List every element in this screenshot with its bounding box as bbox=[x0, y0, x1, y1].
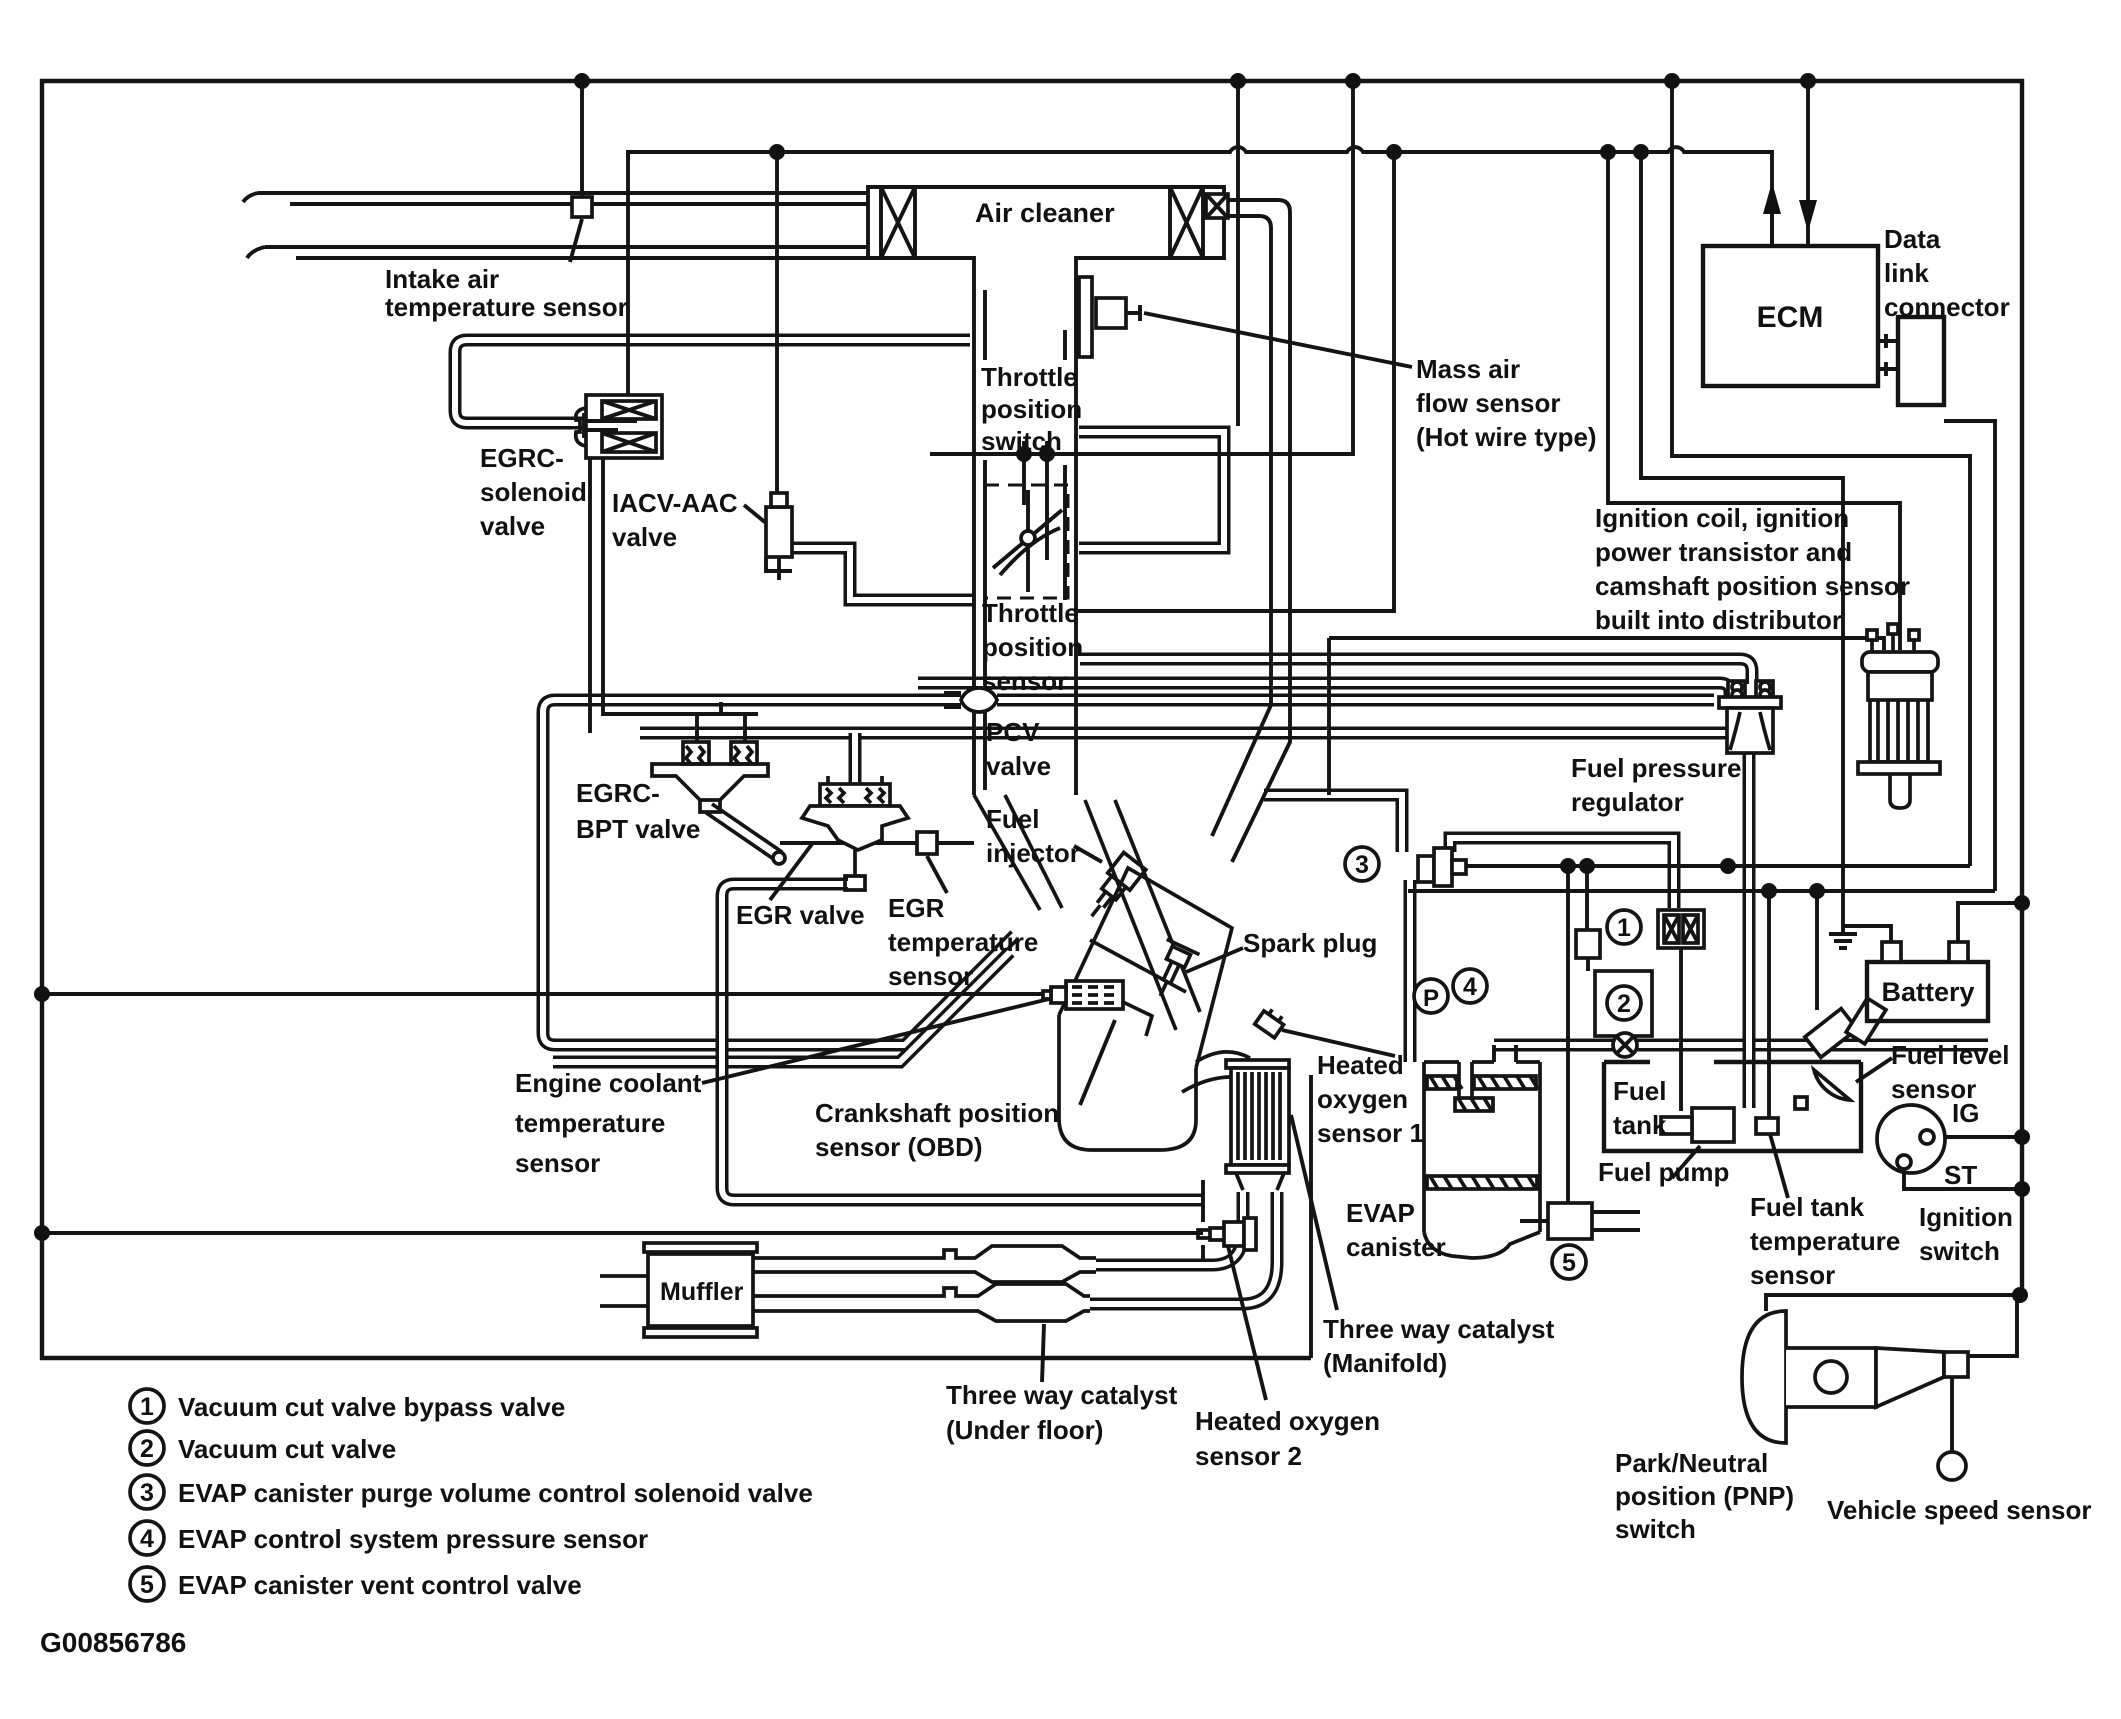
svg-text:position: position bbox=[982, 632, 1083, 662]
throttle position sensor bbox=[985, 485, 1068, 598]
air cleaner right X-box bbox=[1170, 187, 1203, 258]
muffler bbox=[600, 1243, 757, 1337]
svg-text:switch: switch bbox=[1615, 1514, 1696, 1544]
junction dot y866 x1728 bbox=[1720, 858, 1736, 874]
EGR temperature sensor bbox=[917, 832, 937, 854]
air cleaner outlet line B to manifold bbox=[1212, 216, 1271, 836]
coolant U-pipe right of throttle bbox=[1079, 432, 1224, 548]
legend circled 2 bbox=[130, 1431, 164, 1465]
downpipe upper curve bbox=[1096, 1192, 1243, 1265]
leader three way catalyst underfloor bbox=[1042, 1324, 1044, 1382]
pipe to regulator left post bbox=[918, 683, 1730, 697]
spark plug bbox=[1144, 939, 1199, 1003]
svg-text:EVAP canister vent control val: EVAP canister vent control valve bbox=[178, 1570, 582, 1600]
svg-text:Vacuum cut valve bypass valve: Vacuum cut valve bypass valve bbox=[178, 1392, 565, 1422]
svg-text:link: link bbox=[1884, 258, 1929, 288]
wire bus2 to throttle position sensor bbox=[1078, 152, 1394, 611]
intake air temperature sensor bbox=[572, 197, 592, 217]
ECM up arrow bbox=[1770, 192, 1774, 246]
leader crankshaft position sensor bbox=[1080, 1020, 1115, 1105]
svg-text:tank: tank bbox=[1613, 1110, 1667, 1140]
svg-text:Muffler: Muffler bbox=[660, 1278, 744, 1306]
svg-text:IG: IG bbox=[1952, 1098, 1979, 1128]
intake duct lower pipe bbox=[247, 247, 868, 258]
pipe regulator return into fuel tank bbox=[1743, 753, 1756, 1108]
downpipe left wall bbox=[1201, 1180, 1205, 1260]
fuel pressure regulator bbox=[1719, 681, 1781, 753]
EGRC valve lower wire A bbox=[588, 458, 592, 733]
svg-text:valve: valve bbox=[612, 522, 677, 552]
svg-text:canister: canister bbox=[1346, 1232, 1446, 1262]
PNP wire right bbox=[1967, 1295, 2017, 1356]
svg-text:5: 5 bbox=[1562, 1249, 1576, 1277]
svg-text:3: 3 bbox=[1355, 851, 1369, 879]
svg-text:EGR: EGR bbox=[888, 893, 945, 923]
vacuum cut bypass plunger bbox=[1576, 930, 1600, 958]
leader engine coolant temp sensor bbox=[702, 998, 1053, 1083]
circled 3 bbox=[1345, 847, 1379, 881]
heated oxygen sensor 1 bbox=[1255, 1006, 1287, 1038]
pipe air cleaner to EGRC solenoid valve bbox=[455, 340, 970, 423]
pipe PCV to regulator body bbox=[997, 694, 1714, 707]
svg-text:Vehicle speed sensor: Vehicle speed sensor bbox=[1827, 1495, 2091, 1525]
junction dot bus2 x777 bbox=[769, 144, 785, 160]
wire bus2 to IACV-AAC valve bbox=[775, 152, 779, 507]
engine block bbox=[974, 795, 1262, 1150]
junction dot bus2 x1608 bbox=[1600, 144, 1616, 160]
EGR valve bbox=[802, 776, 908, 890]
svg-text:EGRC-: EGRC- bbox=[576, 778, 660, 808]
svg-text:(Hot wire type): (Hot wire type) bbox=[1416, 422, 1597, 452]
junction dot border ST bbox=[2014, 1181, 2030, 1197]
IACV-AAC valve bbox=[766, 507, 792, 557]
PCV valve bbox=[961, 688, 997, 712]
svg-text:camshaft position sensor: camshaft position sensor bbox=[1595, 571, 1910, 601]
leader fuel injector bbox=[1074, 846, 1102, 862]
fuel tank box bbox=[1604, 1062, 1861, 1151]
pipe PCV line down and under engine bbox=[543, 700, 1015, 1045]
EGRC-solenoid valve bbox=[586, 395, 662, 458]
ST wire bbox=[1904, 1169, 2022, 1189]
svg-text:sensor: sensor bbox=[1750, 1260, 1835, 1290]
svg-text:Air cleaner: Air cleaner bbox=[975, 198, 1115, 228]
junction dot TPS B bbox=[1039, 446, 1055, 462]
svg-text:Fuel tank: Fuel tank bbox=[1750, 1192, 1865, 1222]
svg-text:temperature: temperature bbox=[1750, 1226, 1900, 1256]
svg-text:Heated: Heated bbox=[1317, 1050, 1404, 1080]
leader heated oxygen sensor 2 bbox=[1228, 1246, 1266, 1400]
svg-text:EGR valve: EGR valve bbox=[736, 900, 865, 930]
svg-text:(Manifold): (Manifold) bbox=[1323, 1348, 1447, 1378]
wire purge branch from distributor wire bbox=[1327, 638, 1331, 795]
svg-text:ST: ST bbox=[1944, 1160, 1977, 1190]
svg-text:Heated oxygen: Heated oxygen bbox=[1195, 1406, 1380, 1436]
svg-text:Fuel pump: Fuel pump bbox=[1598, 1157, 1729, 1187]
svg-text:Fuel: Fuel bbox=[1613, 1076, 1666, 1106]
ECM box bbox=[1703, 246, 1878, 386]
pipe EGR top to fuel pressure regulator bbox=[640, 727, 1727, 740]
leader intake air temp sensor bbox=[570, 219, 582, 262]
throttle switch contact wires bbox=[1024, 454, 1047, 560]
sensor line y891 bbox=[1408, 889, 1995, 893]
data link connector bbox=[1898, 317, 1944, 405]
svg-text:PCV: PCV bbox=[986, 717, 1040, 747]
pipe canister to fuel level assembly bbox=[1494, 1039, 1988, 1052]
leader spark plug bbox=[1186, 948, 1243, 972]
leader three way catalyst manifold bbox=[1291, 1115, 1337, 1310]
IG wire bbox=[1934, 1135, 2022, 1139]
svg-text:temperature: temperature bbox=[515, 1108, 665, 1138]
leader heated oxygen sensor 1 bbox=[1282, 1030, 1395, 1056]
wire to fuel tank temp sensor bbox=[1767, 891, 1771, 1118]
svg-text:sensor: sensor bbox=[888, 961, 973, 991]
legend circled 1 bbox=[130, 1389, 164, 1423]
svg-text:position: position bbox=[981, 394, 1082, 424]
leader fuel tank temp sensor bbox=[1770, 1134, 1788, 1198]
svg-text:1: 1 bbox=[1617, 914, 1631, 942]
fuel tank temperature sensor bbox=[1756, 1118, 1778, 1134]
battery positive wire bbox=[1958, 903, 2022, 942]
stub circleX bbox=[1623, 1033, 1627, 1036]
svg-text:5: 5 bbox=[140, 1571, 154, 1599]
svg-text:sensor: sensor bbox=[982, 666, 1067, 696]
svg-text:EVAP: EVAP bbox=[1346, 1198, 1415, 1228]
EVAP canister purge volume control solenoid valve bbox=[1418, 848, 1466, 886]
wire bus2 to EGRC-solenoid valve bbox=[626, 152, 630, 395]
leader EGR valve bbox=[770, 844, 812, 900]
junction dot top bus x582 bbox=[574, 73, 590, 89]
sensor bus line y994 bbox=[42, 992, 1043, 996]
svg-text:temperature sensor: temperature sensor bbox=[385, 292, 628, 322]
junction dot bus2 x1394 bbox=[1386, 144, 1402, 160]
svg-text:Spark plug: Spark plug bbox=[1243, 928, 1377, 958]
svg-text:Three way catalyst: Three way catalyst bbox=[1323, 1314, 1555, 1344]
wire top bus to intake air temp sensor bbox=[580, 81, 584, 197]
svg-text:sensor (OBD): sensor (OBD) bbox=[815, 1132, 983, 1162]
circled 5 bbox=[1552, 1245, 1586, 1279]
junction dot TPS A bbox=[1016, 446, 1032, 462]
vacuum cut valve bypass valve coils bbox=[1658, 910, 1704, 948]
junction dot y891 x1769 bbox=[1761, 883, 1777, 899]
distributor bbox=[1858, 624, 1940, 808]
EVAP canister vent control valve bbox=[1548, 1203, 1592, 1239]
leader fuel level sensor bbox=[1856, 1058, 1892, 1082]
EGRC valve lower wire B to EGRC-BPT valve bbox=[603, 458, 758, 742]
svg-text:ECM: ECM bbox=[1757, 301, 1824, 334]
legend circled 5 bbox=[130, 1567, 164, 1601]
EVAP pressure sensor P bbox=[1414, 979, 1448, 1013]
svg-text:temperature: temperature bbox=[888, 927, 1038, 957]
svg-text:injector: injector bbox=[986, 838, 1080, 868]
wire top bus to throttle position switch bbox=[930, 81, 1353, 454]
svg-text:EVAP control system pressure s: EVAP control system pressure sensor bbox=[178, 1524, 648, 1554]
junction dot left border y994 bbox=[34, 986, 50, 1002]
circled 2 bbox=[1607, 986, 1641, 1020]
svg-text:G00856786: G00856786 bbox=[40, 1627, 186, 1658]
EVAP canister bbox=[1424, 1062, 1540, 1258]
svg-text:sensor: sensor bbox=[515, 1148, 600, 1178]
svg-text:regulator: regulator bbox=[1571, 787, 1684, 817]
svg-text:EVAP canister purge volume con: EVAP canister purge volume control solen… bbox=[178, 1478, 813, 1508]
svg-text:Ignition: Ignition bbox=[1919, 1202, 2013, 1232]
EGR valve top stem pipe bbox=[849, 733, 862, 784]
svg-text:Throttle: Throttle bbox=[982, 598, 1079, 628]
svg-text:Fuel: Fuel bbox=[986, 804, 1039, 834]
svg-text:switch: switch bbox=[1919, 1236, 2000, 1266]
three way catalyst (manifold) bbox=[1226, 1060, 1289, 1190]
outer border top/left/right bbox=[42, 81, 2022, 1295]
pipe EGR valve down and under engine to exhaust bbox=[722, 884, 1203, 1200]
svg-text:solenoid: solenoid bbox=[480, 477, 587, 507]
fuel pump bbox=[1692, 1108, 1734, 1142]
park/neutral position switch bbox=[1742, 1311, 1968, 1443]
air cleaner outlet line A to manifold bbox=[1228, 200, 1290, 862]
junction dot top bus x1238 bbox=[1230, 73, 1246, 89]
fuel level sensor assembly bbox=[1795, 998, 1886, 1109]
svg-text:1: 1 bbox=[140, 1393, 154, 1421]
leader mass air flow sensor bbox=[1144, 313, 1412, 367]
svg-text:built into distributor: built into distributor bbox=[1595, 605, 1842, 635]
svg-text:Throttle: Throttle bbox=[981, 362, 1078, 392]
junction dot y891 x1817 bbox=[1809, 883, 1825, 899]
svg-text:Intake air: Intake air bbox=[385, 264, 499, 294]
svg-text:EGRC-: EGRC- bbox=[480, 443, 564, 473]
svg-text:sensor 2: sensor 2 bbox=[1195, 1441, 1302, 1471]
svg-text:oxygen: oxygen bbox=[1317, 1084, 1408, 1114]
legend circled 3 bbox=[130, 1475, 164, 1509]
svg-text:Ignition coil, ignition: Ignition coil, ignition bbox=[1595, 503, 1849, 533]
wire to vacuum cut plunger bbox=[1585, 866, 1589, 930]
svg-text:Mass air: Mass air bbox=[1416, 354, 1520, 384]
svg-text:BPT valve: BPT valve bbox=[576, 814, 700, 844]
wire to vent control valve bbox=[1566, 866, 1570, 1203]
svg-text:connector: connector bbox=[1884, 292, 2010, 322]
svg-text:(Under floor): (Under floor) bbox=[946, 1415, 1103, 1445]
wire top bus to throttle U-pipe bbox=[1236, 81, 1240, 426]
junction dot top bus x1808 bbox=[1800, 73, 1816, 89]
svg-text:Three way catalyst: Three way catalyst bbox=[946, 1380, 1178, 1410]
pipe manifold to purge valve bbox=[1264, 795, 1402, 852]
second hose under engine bbox=[553, 952, 1010, 1062]
svg-text:2: 2 bbox=[140, 1435, 154, 1463]
EGRC-BPT valve bbox=[652, 742, 785, 864]
svg-text:3: 3 bbox=[140, 1479, 154, 1507]
svg-text:position (PNP): position (PNP) bbox=[1615, 1481, 1794, 1511]
fuel injector bbox=[1081, 852, 1146, 924]
intake duct upper pipe bbox=[243, 193, 868, 204]
svg-text:power transistor and: power transistor and bbox=[1595, 537, 1852, 567]
mass air flow sensor bbox=[1079, 277, 1092, 357]
junction dot border y903 bbox=[2014, 895, 2030, 911]
stubs above TPS dots bbox=[1024, 441, 1047, 454]
circle-X vacuum cut valve bbox=[1613, 1033, 1637, 1057]
svg-text:Data: Data bbox=[1884, 224, 1941, 254]
ground symbol bbox=[1829, 926, 1857, 948]
wire to fuel level sensor bbox=[1815, 891, 1819, 1010]
svg-text:Fuel level: Fuel level bbox=[1891, 1040, 2010, 1070]
svg-text:valve: valve bbox=[986, 751, 1051, 781]
circled 1 bbox=[1607, 910, 1641, 944]
svg-text:Fuel pressure: Fuel pressure bbox=[1571, 753, 1742, 783]
junction dot border y1295 bbox=[2012, 1287, 2028, 1303]
vacuum cut valve box bbox=[1595, 971, 1652, 1036]
vehicle speed sensor bbox=[1938, 1452, 1966, 1480]
EGR temp line bbox=[780, 841, 974, 845]
svg-text:Park/Neutral: Park/Neutral bbox=[1615, 1448, 1768, 1478]
svg-text:Vacuum cut valve: Vacuum cut valve bbox=[178, 1434, 396, 1464]
svg-text:flow sensor: flow sensor bbox=[1416, 388, 1560, 418]
pipe loop purge valve to bypass valve bbox=[1450, 838, 1674, 908]
battery bbox=[1867, 962, 1988, 1021]
svg-text:Battery: Battery bbox=[1881, 977, 1974, 1007]
catalyst enclosure right wall bbox=[1309, 1075, 1313, 1358]
svg-text:Crankshaft position: Crankshaft position bbox=[815, 1098, 1059, 1128]
downpipe lower curve bbox=[1090, 1192, 1277, 1304]
svg-text:2: 2 bbox=[1617, 990, 1631, 1018]
pipe to regulator right post bbox=[1080, 659, 1752, 684]
PNP wire top bbox=[1766, 1295, 2017, 1311]
svg-text:switch: switch bbox=[981, 426, 1062, 456]
pipe bypass valve into fuel tank bbox=[1679, 948, 1683, 1111]
wire top bus nest to purge line bbox=[1672, 81, 1970, 866]
throttle body column bbox=[974, 276, 1076, 795]
air cleaner housing bbox=[868, 187, 1224, 276]
svg-text:sensor 1: sensor 1 bbox=[1317, 1118, 1424, 1148]
exhaust bus line y1233 bbox=[42, 1231, 1203, 1235]
svg-text:4: 4 bbox=[140, 1525, 154, 1553]
junction dot left border y1233 bbox=[34, 1225, 50, 1241]
bus wire y152 to ECM bbox=[628, 147, 1772, 246]
underfloor exhaust pipes with catalyst bbox=[753, 1246, 1096, 1321]
ECM down arrow bbox=[1806, 81, 1810, 246]
junction dot top bus x1672 bbox=[1664, 73, 1680, 89]
air cleaner left X-box bbox=[881, 187, 915, 258]
circled 4 bbox=[1453, 969, 1487, 1003]
outer border bottom-left bbox=[42, 1233, 1311, 1358]
wire bus2 to distributor right terminal bbox=[1608, 152, 1900, 650]
canister right inlet tubes bbox=[1494, 1045, 1516, 1062]
junction dot border IG bbox=[2014, 1129, 2030, 1145]
battery ground wire bbox=[1843, 926, 1891, 942]
engine coolant temperature sensor probe bbox=[1043, 981, 1123, 1009]
wire bus2 nest to ground bbox=[1641, 152, 1843, 926]
wire to distributor left terminal bbox=[1329, 638, 1884, 650]
heated oxygen sensor 2 bbox=[1198, 1218, 1256, 1250]
svg-text:Engine coolant: Engine coolant bbox=[515, 1068, 702, 1098]
wire data link connector down bbox=[1944, 421, 1995, 891]
legend circled 4 bbox=[130, 1521, 164, 1555]
svg-text:P: P bbox=[1423, 985, 1439, 1012]
junction dot bus2 x1641 bbox=[1633, 144, 1649, 160]
plunger to valve box bbox=[1586, 958, 1590, 971]
svg-text:IACV-AAC: IACV-AAC bbox=[612, 488, 738, 518]
pipe IACV to throttle body bbox=[792, 548, 974, 600]
pipe purge valve down to canister bbox=[1404, 880, 1417, 1062]
purge signal line y866 bbox=[1466, 864, 1970, 868]
svg-text:valve: valve bbox=[480, 511, 545, 541]
junction dot top bus x1353 bbox=[1345, 73, 1361, 89]
junction dot y866 x1568 bbox=[1560, 858, 1576, 874]
svg-text:4: 4 bbox=[1463, 973, 1477, 1001]
ignition switch bbox=[1877, 1105, 1945, 1173]
leader fuel pump bbox=[1672, 1146, 1700, 1178]
leader IACV-AAC valve bbox=[744, 505, 766, 523]
wire to vehicle speed sensor bbox=[1950, 1377, 1954, 1452]
junction dot y866 x1587 bbox=[1579, 858, 1595, 874]
leader EGR temperature sensor bbox=[927, 856, 947, 893]
air cleaner outlet x-box bbox=[1206, 194, 1228, 218]
